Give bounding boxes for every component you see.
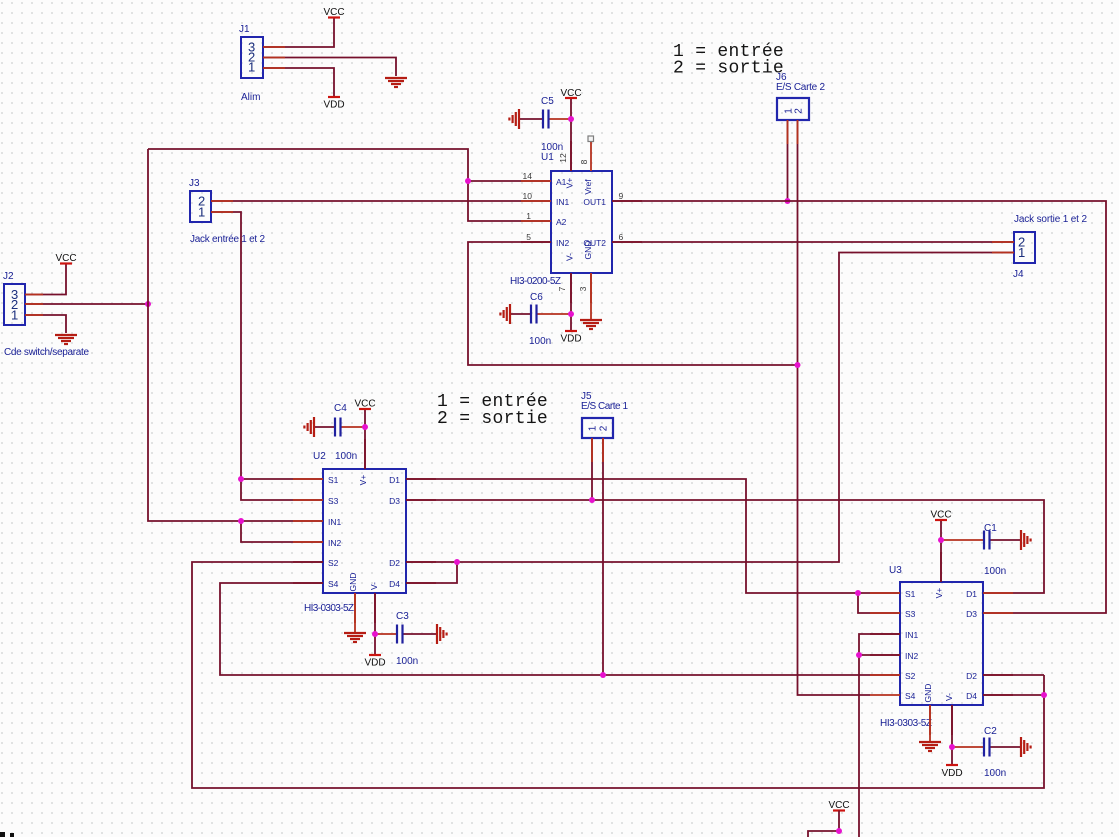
svg-text:VDD: VDD — [941, 768, 962, 779]
pin U2 S1 — [293, 478, 323, 480]
wire U3 V+ to VCC — [940, 520, 942, 582]
wire U2 S4 to middle net — [220, 583, 900, 675]
pin U2 D4 — [406, 582, 436, 584]
svg-text:S4: S4 — [905, 691, 916, 701]
ground (U3 GND) — [919, 742, 941, 751]
svg-text:100n: 100n — [396, 656, 418, 667]
junction U1 A1 — [465, 178, 471, 184]
pin U2 D3 — [406, 499, 436, 501]
svg-text:D4: D4 — [389, 579, 400, 589]
pin U2 S3 — [293, 499, 323, 501]
wire J5 pin2 to S4 net — [602, 438, 604, 675]
wire S1 branch — [241, 478, 323, 480]
svg-text:100n: 100n — [541, 142, 563, 153]
pin J1.1 — [263, 67, 285, 69]
pin U1.5 IN2 — [521, 241, 551, 243]
wire U1 V- to VDD — [570, 273, 572, 331]
pin U1.7 V- — [570, 273, 572, 303]
svg-text:GND: GND — [583, 241, 593, 260]
pin J2.1 — [25, 314, 43, 316]
wire J1 pin2 to ground — [263, 58, 396, 77]
wire J5 pin1 to D3 net — [591, 438, 593, 500]
pin U3 V- — [951, 705, 953, 735]
wire U2 D3 to U3 D1 — [406, 500, 1044, 593]
svg-text:J2: J2 — [3, 271, 14, 282]
svg-text:S4: S4 — [328, 579, 339, 589]
pin J5.1 — [591, 438, 593, 462]
wire J2 pin3 to VCC — [25, 264, 66, 295]
power VCC (U2) — [354, 399, 375, 410]
pin U2 IN1 — [293, 520, 323, 522]
svg-text:IN1: IN1 — [905, 630, 919, 640]
svg-text:E/S Carte 2: E/S Carte 2 — [776, 82, 825, 93]
svg-text:D2: D2 — [966, 671, 977, 681]
svg-text:V-: V- — [369, 582, 379, 590]
junction IN2 net / J6.2 / U3 S4 — [795, 362, 801, 368]
svg-text:S2: S2 — [905, 671, 916, 681]
wire U3 IN1 elbow to bottom — [859, 634, 900, 837]
pin U3 IN2 — [870, 654, 900, 656]
pin U3 D1 — [983, 592, 1013, 594]
svg-text:C4: C4 — [334, 403, 347, 414]
wire U1 V+ to VCC — [570, 98, 572, 171]
wire J4 pin1 to U2 D2/D4 — [457, 253, 1014, 563]
connector J3 body — [189, 178, 265, 245]
IC U1 body — [510, 152, 612, 287]
svg-text:2 = sortie: 2 = sortie — [673, 59, 784, 79]
svg-text:C5: C5 — [541, 96, 554, 107]
pin J1.3 — [263, 46, 285, 48]
IC U3 body — [880, 565, 983, 729]
svg-text:VCC: VCC — [828, 800, 849, 811]
wire J2 pin1 to ground — [25, 315, 66, 333]
svg-text:V+: V+ — [565, 178, 575, 189]
svg-text:D3: D3 — [966, 609, 977, 619]
capacitor C1 — [941, 523, 1021, 577]
pin U2 D2 — [406, 561, 436, 563]
ground (J2 pin1) — [55, 335, 77, 344]
svg-text:VDD: VDD — [323, 100, 344, 111]
power VDD (U2) — [364, 655, 385, 669]
svg-text:1: 1 — [526, 211, 531, 221]
wire J2 pin2 to node — [25, 303, 148, 305]
svg-text:D1: D1 — [966, 589, 977, 599]
svg-text:VDD: VDD — [560, 334, 581, 345]
pin U3 S2 — [870, 674, 900, 676]
power VCC (U3) — [930, 510, 951, 521]
wire U3 IN2 branch — [859, 654, 900, 656]
svg-text:10: 10 — [523, 191, 533, 201]
svg-text:S3: S3 — [328, 496, 339, 506]
svg-text:6: 6 — [619, 232, 624, 242]
svg-text:IN1: IN1 — [556, 197, 570, 207]
svg-text:E/S Carte 1: E/S Carte 1 — [581, 401, 628, 412]
svg-text:IN2: IN2 — [328, 538, 342, 548]
svg-text:Cde switch/separate: Cde switch/separate — [4, 347, 89, 358]
svg-text:14: 14 — [523, 171, 533, 181]
wire U1 A1 branch — [468, 180, 551, 182]
capacitor C2 — [952, 726, 1021, 779]
svg-text:Alim: Alim — [241, 92, 260, 103]
no-connect square marker on Vref — [588, 136, 594, 142]
svg-text:1: 1 — [588, 425, 599, 431]
capacitor C6 — [510, 292, 571, 347]
ground (C1) — [1021, 530, 1031, 550]
wire U1 OUT2 to J4 pin2 — [612, 241, 1014, 243]
pin U3 GND — [929, 705, 931, 735]
wire U3 D4 branch — [983, 694, 1044, 696]
pin J6.2 — [797, 120, 799, 144]
junction U2 D2 — [454, 559, 460, 565]
power VCC (bottom) — [828, 800, 849, 811]
svg-text:C3: C3 — [396, 611, 409, 622]
power VDD (U1) — [560, 331, 581, 345]
power VDD (J1) — [323, 97, 344, 111]
svg-text:S1: S1 — [905, 589, 916, 599]
svg-text:VCC: VCC — [55, 253, 76, 264]
ground (C5) — [509, 109, 519, 129]
wire U2 IN1-IN2 tie — [241, 521, 323, 542]
svg-text:1: 1 — [198, 205, 205, 220]
pin U1.14 A1 — [521, 180, 551, 182]
svg-text:C6: C6 — [530, 292, 543, 303]
pin U3 S3 — [870, 612, 900, 614]
wire J1 pin1 to VDD — [263, 68, 334, 97]
svg-text:GND: GND — [923, 684, 933, 703]
pin J3.2 — [211, 200, 233, 202]
svg-text:D4: D4 — [966, 691, 977, 701]
svg-text:V+: V+ — [934, 588, 944, 599]
pin U2 D1 — [406, 478, 436, 480]
pin U1.6 OUT2 — [612, 241, 642, 243]
svg-text:IN1: IN1 — [328, 517, 342, 527]
power VCC (U1) — [560, 88, 581, 99]
junction C6/VDD — [568, 311, 574, 317]
ground (J1 pin2) — [385, 78, 407, 87]
svg-text:D2: D2 — [389, 558, 400, 568]
ground (C3) — [437, 624, 447, 644]
junction C4/VCC — [362, 424, 368, 430]
svg-text:V-: V- — [944, 693, 954, 701]
connector J6 body — [776, 72, 825, 120]
pin U1.8 Vref — [590, 142, 592, 171]
wire J3 pin1 down to U2 S1/S3 — [211, 212, 323, 500]
junction J2.2 net — [145, 301, 151, 307]
connector J5 body — [581, 391, 628, 438]
svg-text:GND: GND — [348, 573, 358, 592]
cropped text fragment at bottom-left — [0, 832, 14, 837]
connector J4 body — [1013, 214, 1087, 280]
junction U3 D4 — [1041, 692, 1047, 698]
svg-text:OUT1: OUT1 — [583, 197, 606, 207]
ground (C2) — [1021, 737, 1031, 757]
pin U3 IN1 — [870, 633, 900, 635]
wire U1 OUT1 to right edge and U3 D3 — [612, 201, 1106, 613]
svg-text:U2: U2 — [313, 451, 326, 462]
wire J3 pin2 to U1 IN1 — [211, 200, 551, 202]
pin J2.2 — [25, 303, 43, 305]
junction C3/VDD — [372, 631, 378, 637]
svg-text:IN2: IN2 — [556, 238, 570, 248]
svg-text:A2: A2 — [556, 217, 567, 227]
power VDD (U3) — [941, 765, 962, 779]
pin U1.9 OUT1 — [612, 200, 642, 202]
pin U1.1 A2 — [521, 220, 551, 222]
svg-text:C2: C2 — [984, 726, 997, 737]
pin U1.12 V+ — [570, 141, 572, 171]
capacitor C3 — [375, 611, 437, 667]
svg-text:S3: S3 — [905, 609, 916, 619]
svg-text:100n: 100n — [335, 451, 357, 462]
svg-text:1: 1 — [11, 308, 18, 323]
svg-text:J3: J3 — [189, 178, 200, 189]
pin J6.1 — [787, 120, 789, 144]
wire U2 D2-D4 tie — [406, 562, 457, 583]
ground (C4) — [304, 417, 314, 437]
pin U2 S4 — [293, 582, 323, 584]
svg-text:VCC: VCC — [930, 510, 951, 521]
svg-text:VCC: VCC — [323, 7, 344, 18]
svg-text:HI3-0303-5Z: HI3-0303-5Z — [304, 603, 354, 614]
wire bottom VCC elbow — [808, 811, 839, 837]
svg-text:8: 8 — [579, 159, 589, 164]
power VCC (J2) — [55, 253, 76, 264]
wire J6 pin1 to OUT1 net — [787, 120, 789, 201]
wire J6 pin2 down to IN2 net and U3 S4 — [798, 120, 871, 695]
svg-text:S1: S1 — [328, 475, 339, 485]
svg-text:VCC: VCC — [354, 399, 375, 410]
svg-text:HI3-0303-5Z: HI3-0303-5Z — [880, 718, 932, 729]
pin U3 S4 — [870, 694, 900, 696]
junction J5.1/D3 net — [589, 497, 595, 503]
pin U3 D2 — [983, 674, 1013, 676]
wire U2 D2 elbow — [406, 561, 457, 563]
svg-text:VDD: VDD — [364, 658, 385, 669]
pin U1.10 IN1 — [521, 200, 551, 202]
junction U3 IN2 — [856, 652, 862, 658]
wire U3 S1-S3 tie — [858, 593, 900, 613]
ground (U2 GND) — [344, 633, 366, 642]
svg-text:D3: D3 — [389, 496, 400, 506]
pin U2 S2 — [293, 561, 323, 563]
wire U2 D1 to U3 S1 — [406, 479, 900, 593]
pin U3 S1 — [870, 592, 900, 594]
svg-text:100n: 100n — [984, 768, 1006, 779]
ground (C6) — [500, 304, 510, 324]
wire U3 V- to VDD — [951, 705, 953, 765]
pin J4.1 — [992, 252, 1014, 254]
junction C5/VCC — [568, 116, 574, 122]
svg-text:7: 7 — [557, 286, 567, 291]
svg-text:Jack sortie 1 et 2: Jack sortie 1 et 2 — [1014, 214, 1087, 225]
power VCC (J1) — [323, 7, 344, 18]
svg-text:12: 12 — [558, 153, 568, 163]
svg-text:5: 5 — [526, 232, 531, 242]
junction U3 S1 — [855, 590, 861, 596]
wire U1 GND pin to ground — [590, 273, 592, 319]
junction C1/VCC — [938, 537, 944, 543]
svg-text:VCC: VCC — [560, 88, 581, 99]
svg-text:Vref: Vref — [583, 179, 593, 195]
svg-text:C1: C1 — [984, 523, 997, 534]
svg-text:1: 1 — [1018, 245, 1025, 260]
wire U2 GND pin to ground — [354, 593, 356, 632]
pin J2.3 — [25, 294, 43, 296]
junction C2/VDD — [949, 744, 955, 750]
pin U2 V+ — [364, 439, 366, 469]
pin J1.2 — [263, 57, 285, 59]
wire top run y=149 to U1 A2 — [148, 149, 551, 221]
svg-text:100n: 100n — [529, 336, 551, 347]
wire U2 V- to VDD — [374, 593, 376, 655]
pin U1.3 GND — [590, 273, 592, 303]
svg-text:2: 2 — [599, 425, 610, 431]
connector J2 body — [3, 271, 89, 358]
svg-text:1: 1 — [248, 60, 255, 75]
pin U2 GND — [354, 593, 356, 623]
wire U3 GND pin to ground — [929, 705, 931, 741]
svg-text:U1: U1 — [541, 152, 554, 163]
wire U1 IN2 elbow — [468, 242, 798, 365]
wire J1 pin3 to VCC — [263, 18, 334, 48]
ground (U1 pin3) — [580, 320, 602, 329]
pin U3 V+ — [940, 552, 942, 582]
IC U2 body — [304, 451, 406, 614]
capacitor C4 — [314, 403, 365, 462]
svg-text:2 = sortie: 2 = sortie — [437, 409, 548, 429]
pin J5.2 — [602, 438, 604, 462]
pin J4.2 — [992, 241, 1014, 243]
pin U3 D4 — [983, 694, 1013, 696]
wire trunk x=148 — [148, 149, 323, 521]
svg-text:D1: D1 — [389, 475, 400, 485]
pin U2 V- — [374, 593, 376, 623]
pin J3.1 — [211, 211, 233, 213]
svg-text:S2: S2 — [328, 558, 339, 568]
junction bottom VCC — [836, 828, 842, 834]
wire U3 D2 elbow — [983, 674, 1044, 676]
svg-text:2: 2 — [794, 108, 805, 114]
capacitor C5 — [519, 96, 571, 153]
junction J6.1/OUT1 — [785, 198, 791, 204]
svg-text:3: 3 — [578, 286, 588, 291]
svg-text:J1: J1 — [239, 24, 250, 35]
junction J5.2/S4 net — [600, 672, 606, 678]
svg-text:IN2: IN2 — [905, 651, 919, 661]
svg-text:HI3-0200-5Z: HI3-0200-5Z — [510, 276, 561, 287]
junction U2 IN1 — [238, 518, 244, 524]
svg-text:9: 9 — [619, 191, 624, 201]
wire U2 V+ to VCC — [364, 409, 366, 469]
svg-text:100n: 100n — [984, 566, 1006, 577]
svg-text:J4: J4 — [1013, 269, 1024, 280]
svg-text:V-: V- — [565, 253, 575, 261]
wire U2 S2 to long bottom net — [192, 562, 1044, 788]
svg-text:V+: V+ — [358, 475, 368, 486]
junction U2 S1 — [238, 476, 244, 482]
svg-text:Jack entrée 1 et 2: Jack entrée 1 et 2 — [190, 234, 265, 245]
pin U3 D3 — [983, 612, 1013, 614]
connector J1 body — [239, 24, 263, 103]
pin U2 IN2 — [293, 541, 323, 543]
svg-text:U3: U3 — [889, 565, 902, 576]
